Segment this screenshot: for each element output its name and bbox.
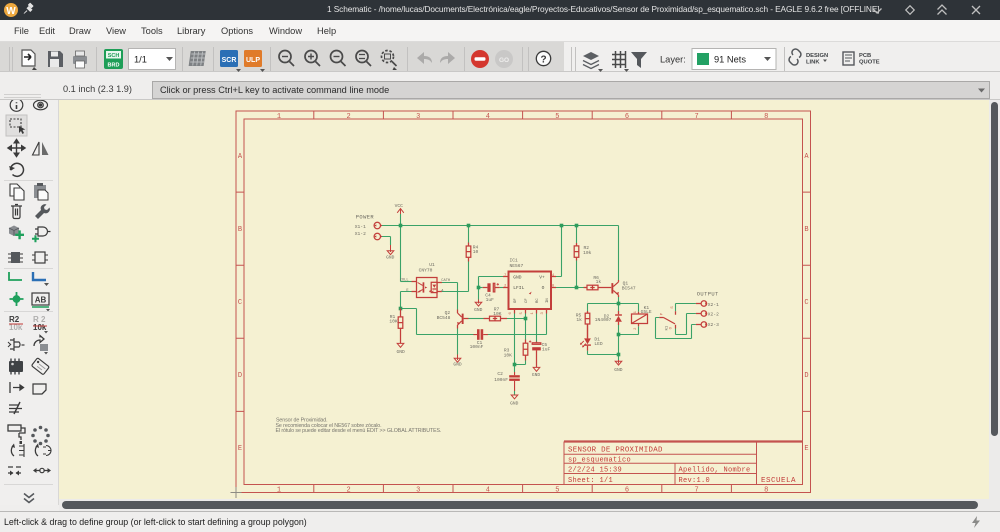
design link	[789, 49, 828, 66]
connector X1-1	[374, 222, 382, 228]
junction node B	[617, 333, 621, 337]
svg-text:GND: GND	[474, 307, 483, 313]
ground symbol C2	[511, 395, 518, 399]
svg-text:V+: V+	[539, 275, 545, 281]
capacitor C2	[509, 372, 520, 391]
tool info	[10, 99, 23, 112]
wire IC pin5 drop to C5	[536, 314, 538, 342]
frame column numbers bottom	[277, 487, 768, 495]
wire C1 right to IC IN pin	[488, 314, 547, 335]
capacitor C4 polarized	[483, 283, 500, 292]
IC1 internal pin name GND	[513, 275, 550, 303]
wire C4 right to IC LFIL	[500, 287, 503, 289]
svg-text:RC: RC	[536, 298, 540, 303]
capacitor C5 polarized	[529, 340, 541, 367]
zoom out icon	[331, 51, 346, 67]
junction VCC/rail	[399, 224, 403, 228]
svg-text:GND: GND	[614, 367, 623, 373]
IC1 NE567 body	[503, 272, 556, 314]
frame column ticks bottom	[314, 485, 732, 493]
svg-text:GND: GND	[513, 275, 522, 281]
svg-text:6: 6	[625, 487, 629, 495]
svg-text:Sheet: 1/1: Sheet: 1/1	[568, 477, 613, 485]
tool value	[33, 315, 48, 334]
svg-text:SENSOR DE PROXIMIDAD: SENSOR DE PROXIMIDAD	[568, 447, 663, 455]
tool show	[34, 100, 48, 110]
svg-text:ESCUELA: ESCUELA	[761, 477, 796, 485]
svg-text:CF: CF	[525, 298, 529, 303]
tool bus	[33, 272, 49, 286]
wire C2 bottom to GND	[514, 391, 516, 395]
tool miter	[34, 336, 48, 355]
left panel grip lines	[4, 94, 41, 95]
tool delete	[11, 205, 22, 219]
connector X2-1	[696, 301, 707, 307]
note text bottom left	[276, 418, 442, 435]
tool optimize	[31, 426, 50, 446]
svg-text:O: O	[669, 326, 673, 329]
svg-text:IC1: IC1	[510, 257, 519, 263]
svg-text:1: 1	[277, 487, 281, 495]
junction node A	[617, 302, 621, 306]
tool group selected	[6, 115, 27, 136]
relay K1 coil	[632, 312, 648, 327]
resistor R2	[574, 243, 579, 261]
svg-text:1: 1	[531, 312, 535, 315]
svg-text:5: 5	[520, 312, 524, 315]
zoom redraw icon	[382, 51, 398, 71]
junction E/R1 node	[399, 307, 403, 311]
relay pin numbers	[634, 306, 675, 330]
pcb quote	[843, 52, 880, 66]
svg-text:LED: LED	[594, 341, 603, 347]
menu bar	[0, 20, 1000, 42]
filter icon	[631, 52, 647, 68]
svg-text:10: 10	[473, 249, 479, 255]
SCR icon	[220, 50, 241, 72]
svg-text:1: 1	[277, 113, 281, 121]
svg-text:GND: GND	[532, 372, 541, 378]
resistor R1	[398, 309, 403, 344]
wire IC pin1 drop to C2	[514, 314, 516, 373]
tool pinswap	[32, 227, 51, 242]
svg-text:X2-1: X2-1	[708, 302, 719, 308]
svg-text:2: 2	[634, 327, 638, 330]
svg-text:1: 1	[634, 310, 638, 313]
connector X1-2	[374, 233, 382, 239]
junction O/R2 node	[575, 286, 579, 290]
svg-text:7: 7	[694, 113, 698, 121]
resistor R5	[585, 311, 590, 338]
print icon	[73, 51, 87, 68]
tool copy	[10, 184, 24, 200]
svg-text:X1-2: X1-2	[355, 231, 366, 237]
zoom select icon	[356, 51, 371, 67]
svg-text:8: 8	[764, 487, 768, 495]
expand chevrons	[24, 494, 34, 503]
tool gateswap	[8, 252, 23, 263]
tool ic	[9, 359, 23, 375]
wire IC pin2 drop to R3	[525, 314, 527, 340]
svg-text:2/2/24 15:39: 2/2/24 15:39	[568, 466, 622, 474]
transistor Q2 BC548	[457, 310, 468, 329]
ground symbol X1-2	[387, 245, 394, 255]
wire contact S to X2-1	[676, 304, 696, 312]
wire relay pin2 down and left	[619, 326, 639, 334]
wire R4 top to rail	[468, 226, 470, 243]
svg-text:1uF: 1uF	[542, 346, 551, 352]
tool change	[35, 204, 50, 219]
connector X2-3	[696, 322, 707, 328]
frame inner border	[244, 119, 803, 485]
canvas	[59, 100, 989, 499]
wire R2 top lead to rail	[576, 226, 578, 244]
svg-text:C: C	[804, 299, 808, 307]
tool errors	[9, 402, 22, 414]
svg-text:A: A	[804, 153, 809, 161]
wire Q2 base to R7	[469, 318, 484, 320]
svg-text:D: D	[238, 372, 242, 380]
title bar	[0, 0, 1000, 20]
svg-text:10K: 10K	[493, 311, 502, 317]
svg-text:sp_esquematico: sp_esquematico	[568, 456, 631, 464]
svg-text:NE567: NE567	[510, 263, 524, 269]
svg-text:7: 7	[694, 487, 698, 495]
tool add part	[9, 226, 24, 240]
wire V+ riser	[556, 226, 562, 277]
wire node A to relay pin1	[619, 304, 639, 312]
wire U1 A to R4 bottom	[442, 262, 469, 292]
svg-text:10K: 10K	[504, 352, 513, 358]
wire VCC vertical drop	[400, 214, 402, 282]
wire LED return	[588, 351, 619, 355]
resistor R4	[466, 243, 471, 262]
frame row ticks right	[803, 192, 811, 411]
tool label	[32, 293, 50, 312]
transistor Q1 BC547	[611, 280, 619, 297]
resistor R7	[484, 316, 508, 321]
connector X2-2	[696, 311, 707, 317]
svg-text:POWER: POWER	[356, 215, 375, 221]
redo icon	[440, 52, 455, 64]
tool replace	[32, 252, 48, 263]
svg-text:IN: IN	[546, 298, 550, 303]
wire R7 to IC pin2 net	[507, 318, 526, 320]
svg-text:6: 6	[625, 113, 629, 121]
svg-text:3: 3	[416, 487, 420, 495]
tool mirror	[33, 142, 49, 155]
wire Q1 emitter to node A	[618, 297, 620, 304]
svg-text:VCC: VCC	[395, 203, 404, 209]
svg-text:1N4007: 1N4007	[595, 317, 612, 323]
svg-text:Apellido, Nombre: Apellido, Nombre	[679, 466, 751, 474]
svg-text:CNY70: CNY70	[419, 267, 433, 273]
svg-text:4: 4	[486, 487, 490, 495]
capacitor C1	[473, 329, 488, 340]
title block outline	[564, 442, 803, 485]
layer combo	[692, 49, 776, 70]
svg-text:OF: OF	[514, 298, 518, 303]
tool erc-mark	[10, 382, 24, 393]
ground symbol node B	[615, 360, 622, 365]
svg-text:Rev:1.0: Rev:1.0	[679, 477, 711, 485]
junction V+/rail	[560, 224, 564, 228]
status bar	[0, 511, 1000, 532]
svg-text:4: 4	[486, 113, 490, 121]
ULP icon	[244, 50, 265, 72]
svg-text:S: S	[671, 306, 675, 309]
svg-text:GND: GND	[453, 362, 462, 368]
ground symbol C5	[533, 367, 540, 371]
zoom in icon	[305, 51, 320, 67]
wire node A to D2 top	[618, 304, 620, 312]
svg-text:U1: U1	[429, 262, 435, 268]
scrollbars	[989, 100, 1000, 499]
sheet combo	[129, 49, 176, 70]
tool name	[9, 315, 23, 332]
supply symbol VCC	[397, 209, 404, 214]
wire IC GND pin to ground node	[479, 277, 504, 300]
svg-text:P: P	[660, 312, 664, 315]
svg-text:GND: GND	[396, 349, 405, 355]
wire node A to R5 branch	[588, 304, 619, 312]
wire contact O to X2-2	[676, 314, 696, 335]
svg-text:X2-2: X2-2	[708, 311, 719, 317]
frame column numbers top	[277, 113, 768, 121]
wire R3 bottom link	[515, 361, 526, 365]
left tool panel	[0, 100, 59, 505]
relay K1 contact	[659, 311, 675, 328]
svg-text:5: 5	[555, 487, 559, 495]
svg-text:G5LE: G5LE	[641, 309, 652, 315]
tool smash	[8, 338, 25, 351]
tool paint	[8, 425, 25, 444]
svg-text:10k: 10k	[583, 250, 592, 256]
frame outer border	[236, 111, 811, 493]
svg-text:1uF: 1uF	[486, 297, 495, 303]
junction R2/rail	[575, 224, 579, 228]
wire X1-2 to GND	[382, 237, 391, 246]
wire Q2 emitter drop	[457, 329, 459, 355]
ground symbol Q2	[454, 355, 461, 363]
svg-text:GND: GND	[510, 400, 519, 406]
wire R2 bottom to output node	[576, 261, 578, 288]
svg-text:1k: 1k	[596, 279, 602, 285]
svg-text:100nF: 100nF	[494, 377, 508, 383]
svg-text:10K: 10K	[389, 318, 398, 324]
command bar	[0, 72, 1000, 100]
stop icon	[471, 50, 489, 68]
layer settings icon	[583, 52, 603, 72]
ground symbol IC1/C4	[475, 300, 482, 307]
wire U1 E pin down	[401, 292, 412, 309]
svg-text:100nF: 100nF	[470, 344, 484, 350]
wire node B down to ground node	[618, 335, 620, 361]
svg-text:B: B	[804, 226, 808, 234]
tool split	[11, 444, 24, 458]
wire IC O pin to R6	[556, 287, 584, 289]
origin crosshair	[231, 487, 242, 498]
help icon	[536, 51, 550, 65]
wire VCC to U1 COLL	[401, 281, 412, 283]
tool polygon	[33, 384, 46, 394]
junction R7/pin2 node	[524, 317, 528, 321]
wire node to input route	[401, 309, 474, 335]
wire power rail X1-1 to Q1 collector branch	[382, 225, 619, 227]
frame column ticks top	[314, 111, 732, 119]
svg-text:5: 5	[555, 113, 559, 121]
junction IC ground node	[477, 286, 481, 290]
svg-text:GND: GND	[386, 255, 395, 261]
svg-text:O: O	[542, 285, 545, 291]
tool net	[9, 272, 22, 280]
SCH/BRD icon	[104, 49, 123, 69]
svg-text:K1: K1	[666, 325, 670, 330]
tool rotate	[9, 163, 23, 176]
frame row letters left	[238, 153, 243, 453]
svg-text:1k: 1k	[576, 317, 582, 323]
film icon	[189, 51, 206, 66]
tool pattern	[8, 467, 21, 477]
svg-text:6: 6	[509, 312, 513, 315]
wire rail drop to Q1 collector	[618, 226, 620, 281]
tool paste	[34, 183, 48, 200]
svg-text:3: 3	[541, 312, 545, 315]
svg-text:D: D	[804, 372, 808, 380]
tool move	[8, 140, 25, 157]
wire U1 CATH to Q2 collector	[437, 283, 458, 310]
diode D2 1N4007	[615, 311, 622, 325]
tool attribute	[31, 358, 49, 375]
svg-text:X1-1: X1-1	[355, 224, 366, 230]
svg-text:E: E	[804, 445, 808, 453]
wire contact P to X2-3	[656, 318, 696, 339]
svg-text:2: 2	[346, 487, 350, 495]
svg-text:El rótulo se puede editar desd: El rótulo se puede editar desde el menú …	[276, 428, 442, 434]
ground symbol R1	[397, 343, 404, 347]
wire D2 bottom to node B	[618, 325, 620, 335]
svg-text:A: A	[238, 153, 243, 161]
resistor R3	[523, 340, 528, 361]
svg-text:E: E	[238, 445, 242, 453]
toolbar	[0, 42, 1000, 72]
svg-text:2: 2	[346, 113, 350, 121]
resistor R6	[584, 285, 612, 290]
tool fixhole	[33, 468, 51, 473]
svg-text:C2: C2	[497, 371, 503, 377]
frame row letters right	[804, 153, 809, 453]
IC1 pin numbers	[504, 274, 555, 315]
svg-text:BC547: BC547	[622, 285, 636, 291]
svg-text:B: B	[238, 226, 242, 234]
go icon disabled	[495, 50, 513, 68]
wire C4 left link	[479, 287, 483, 289]
frame row ticks left	[236, 192, 244, 411]
save icon	[48, 51, 63, 67]
open file icon	[22, 50, 37, 70]
junction R4/rail	[467, 224, 471, 228]
svg-text:CATH: CATH	[441, 279, 450, 283]
zoom fit icon	[279, 51, 294, 67]
svg-text:3: 3	[416, 113, 420, 121]
grid icon	[612, 51, 629, 72]
undo icon	[417, 52, 432, 64]
junction R3/pin1 node	[513, 363, 517, 367]
optocoupler U1 CNY70	[412, 278, 442, 298]
svg-text:8: 8	[764, 113, 768, 121]
svg-text:COLL: COLL	[400, 279, 409, 283]
svg-text:BC548: BC548	[437, 315, 451, 321]
LED D1	[580, 324, 591, 351]
svg-text:X2-3: X2-3	[708, 322, 719, 328]
svg-text:LFIL: LFIL	[513, 285, 524, 291]
junction ground node relay	[617, 353, 621, 357]
tool junction	[10, 292, 24, 306]
svg-text:OUTPUT: OUTPUT	[697, 291, 719, 297]
tool invoke	[35, 444, 51, 457]
svg-text:C: C	[238, 299, 242, 307]
